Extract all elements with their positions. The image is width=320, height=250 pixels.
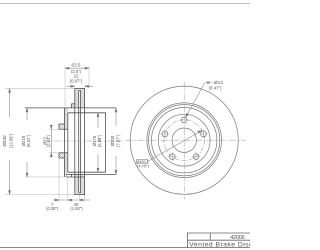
pilot boss [58,124,60,129]
svg-text:Ø330: Ø330 [2,135,7,147]
ext lines bottom [58,159,60,202]
dim O200 line [115,108,117,174]
friction inner edge circle 2 [149,105,220,176]
center bore [172,128,196,152]
ext line 63.5 left [64,66,66,107]
band-wall junction bump top [72,103,75,105]
hub face circle [158,114,210,166]
bore walls [59,128,68,130]
svg-text:(2.83"): (2.83") [46,134,51,147]
frame bottom border [0,247,250,249]
dim O330 text [2,133,13,148]
svg-text:(0.47"): (0.47") [209,86,223,91]
dim 63.5 top [65,66,89,107]
svg-text:(8.62"): (8.62") [26,134,31,147]
svg-text:(1.93"): (1.93") [70,206,83,211]
leader from box to bolt circle [148,131,202,162]
hatch flange top [64,108,67,129]
dim O219 line [25,108,64,177]
dim O176 text [92,134,102,147]
title block [187,233,250,248]
dim 22 line [67,85,94,87]
dim 63.5 text [70,63,83,84]
svg-text:Vented Brake Disc: Vented Brake Disc [189,241,250,248]
hatch boss top [59,124,64,129]
dim O72 line [49,125,59,157]
outer circle [130,86,238,194]
ext lines O219 [25,176,64,178]
drum closed-end rim [105,113,107,172]
hub flange walls [63,108,65,177]
front vertical centerline [183,82,185,200]
hatch band bottom plates [75,174,79,194]
svg-text:(4.75"): (4.75") [137,164,150,169]
hatch band top plates [75,89,79,108]
bolt circle dash-dot [164,120,205,161]
drum wall outer top [25,107,116,109]
ext line 63.5 right [88,66,90,88]
drum wall inner bottom [68,171,106,173]
dim O330 line [5,89,75,195]
svg-text:63.5: 63.5 [72,63,81,68]
hatch flange bottom [64,153,67,177]
bolt holes [162,117,206,160]
drum wall outer bottom [66,173,116,175]
section vent slot [78,90,80,193]
svg-text:(12.99"): (12.99") [9,133,14,148]
dim O200 text [110,134,120,147]
bottom dim texts [46,202,83,211]
FRONT VIEW [130,86,238,194]
bottom dims 7 and 49 [53,159,90,202]
leader text 5-O12 [207,80,223,90]
hat outer circle [152,108,217,173]
boxed dim O120.7 [137,159,150,169]
svg-text:(0.28"): (0.28") [46,206,59,211]
svg-text:42006: 42006 [230,235,244,241]
friction inner edge circle [147,103,222,178]
dim O72 text [42,134,51,147]
hatch boss bottom [59,153,64,158]
dim O176 line [97,113,99,172]
section friction band outline [75,89,85,195]
frame top border [0,3,250,5]
ext lines O330 [5,88,75,90]
band inner edge bottom [66,176,85,178]
drum wall inner top [68,112,106,114]
section centerline [44,140,122,142]
bolt hole crosshairs [160,115,208,161]
ext lines O72 [49,128,59,130]
front horizontal centerline [126,139,246,141]
leader 5-O12 [186,83,211,118]
dim O219 text [21,134,31,147]
hatch bump top [72,104,75,108]
svg-text:(0.87"): (0.87") [70,78,83,83]
svg-text:(6.89"): (6.89") [97,134,102,147]
band vertical centerline [79,195,81,202]
svg-text:(7.87"): (7.87") [115,134,120,147]
